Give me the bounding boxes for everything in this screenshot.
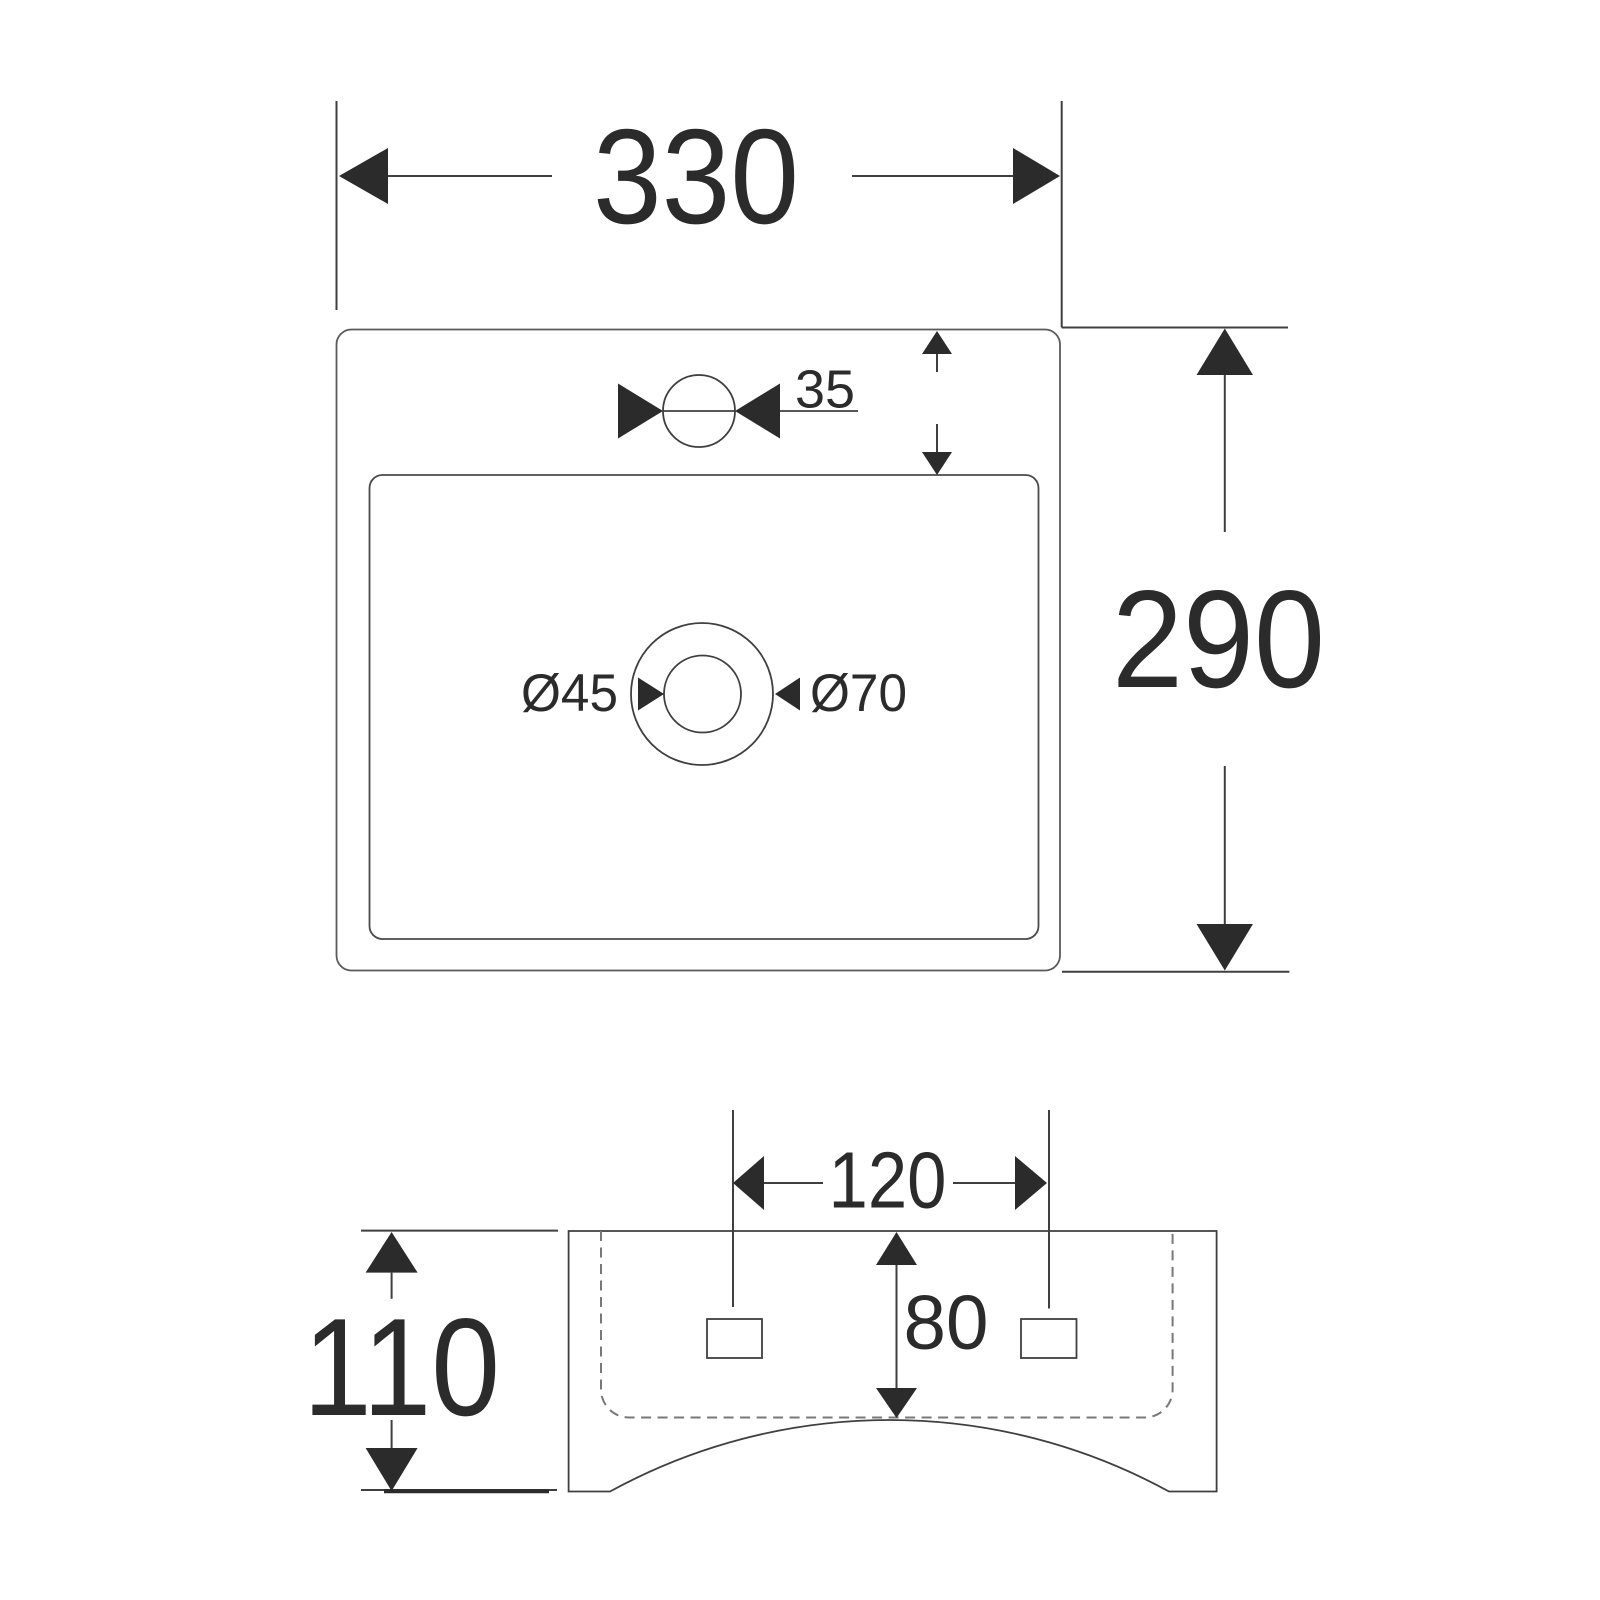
svg-text:35: 35 (795, 360, 855, 420)
svg-text:80: 80 (904, 1280, 989, 1366)
svg-text:290: 290 (1112, 562, 1325, 717)
svg-text:120: 120 (829, 1136, 947, 1225)
svg-text:Ø45: Ø45 (521, 664, 618, 723)
svg-text:110: 110 (303, 1290, 500, 1445)
svg-text:Ø70: Ø70 (810, 664, 907, 723)
svg-text:330: 330 (593, 101, 799, 252)
